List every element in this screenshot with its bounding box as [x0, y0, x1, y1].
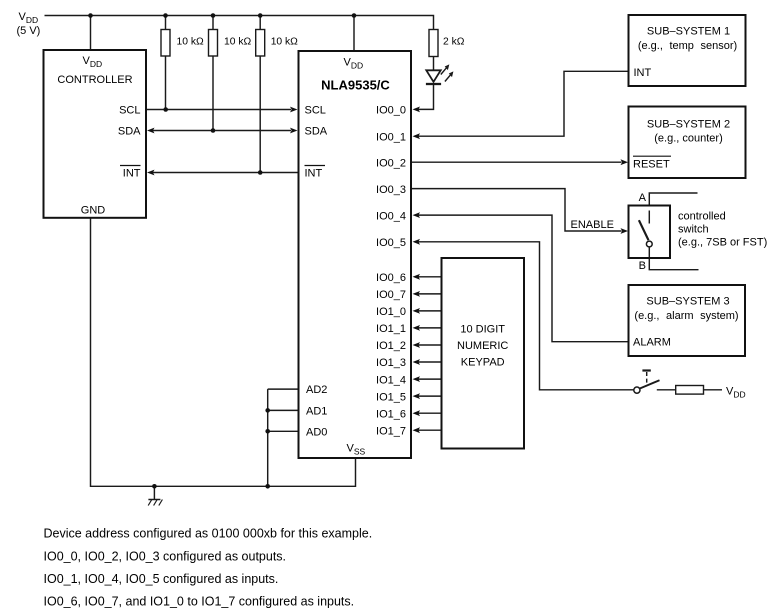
svg-text:IO0_3: IO0_3 — [376, 184, 406, 196]
svg-text:NUMERIC: NUMERIC — [457, 340, 508, 352]
svg-text:10 kΩ: 10 kΩ — [271, 37, 298, 48]
svg-text:SDA: SDA — [118, 126, 141, 138]
svg-text:(e.g., alarm system): (e.g., alarm system) — [634, 310, 738, 322]
svg-text:IO1_5: IO1_5 — [376, 391, 406, 403]
svg-text:B: B — [639, 260, 646, 272]
svg-text:(e.g., temp sensor): (e.g., temp sensor) — [638, 40, 737, 52]
svg-text:IO0_4: IO0_4 — [376, 210, 406, 222]
svg-text:INT: INT — [305, 168, 323, 180]
svg-text:10 kΩ: 10 kΩ — [224, 37, 251, 48]
svg-text:VDD: VDD — [19, 11, 39, 25]
svg-text:GND: GND — [81, 205, 106, 217]
svg-text:AD2: AD2 — [306, 384, 327, 396]
svg-text:SUB–SYSTEM 2: SUB–SYSTEM 2 — [647, 118, 730, 130]
svg-text:CONTROLLER: CONTROLLER — [57, 74, 132, 86]
svg-text:(e.g., 7SB or FST): (e.g., 7SB or FST) — [678, 237, 767, 249]
svg-text:SUB–SYSTEM 3: SUB–SYSTEM 3 — [646, 296, 729, 308]
svg-text:controlled: controlled — [678, 211, 726, 223]
svg-text:KEYPAD: KEYPAD — [461, 357, 505, 369]
svg-text:IO1_0: IO1_0 — [376, 306, 406, 318]
svg-text:IO0_5: IO0_5 — [376, 237, 406, 249]
svg-text:AD1: AD1 — [306, 405, 327, 417]
svg-text:VDD: VDD — [726, 386, 746, 400]
svg-text:SDA: SDA — [305, 126, 328, 138]
svg-text:NLA9535/C: NLA9535/C — [321, 78, 390, 93]
svg-text:SCL: SCL — [305, 105, 326, 117]
svg-text:ENABLE: ENABLE — [571, 219, 614, 231]
svg-text:IO0_1, IO0_4, IO0_5 configured: IO0_1, IO0_4, IO0_5 configured as inputs… — [44, 572, 279, 586]
svg-text:IO1_4: IO1_4 — [376, 374, 406, 386]
svg-text:IO1_7: IO1_7 — [376, 425, 406, 437]
svg-text:SCL: SCL — [119, 105, 140, 117]
svg-text:IO0_2: IO0_2 — [376, 157, 406, 169]
svg-text:VSS: VSS — [347, 443, 366, 457]
svg-text:VDD: VDD — [344, 57, 364, 71]
svg-text:IO0_1: IO0_1 — [376, 131, 406, 143]
svg-text:(5 V): (5 V) — [17, 25, 41, 37]
svg-text:IO0_0, IO0_2, IO0_3 configured: IO0_0, IO0_2, IO0_3 configured as output… — [44, 550, 287, 564]
svg-text:IO0_6, IO0_7, and IO1_0 to IO1: IO0_6, IO0_7, and IO1_0 to IO1_7 configu… — [44, 595, 355, 609]
svg-text:VDD: VDD — [83, 55, 103, 69]
svg-text:RESET: RESET — [633, 159, 670, 171]
svg-text:A: A — [639, 192, 647, 204]
svg-text:switch: switch — [678, 224, 709, 236]
svg-text:IO1_3: IO1_3 — [376, 357, 406, 369]
svg-text:SUB–SYSTEM 1: SUB–SYSTEM 1 — [647, 26, 730, 38]
svg-text:IO0_6: IO0_6 — [376, 272, 406, 284]
svg-text:IO0_0: IO0_0 — [376, 105, 406, 117]
svg-text:IO1_6: IO1_6 — [376, 408, 406, 420]
svg-text:10 DIGIT: 10 DIGIT — [460, 324, 505, 336]
svg-text:IO1_2: IO1_2 — [376, 340, 406, 352]
svg-text:IO0_7: IO0_7 — [376, 289, 406, 301]
svg-text:INT: INT — [123, 168, 141, 180]
svg-text:2 kΩ: 2 kΩ — [443, 36, 465, 47]
svg-text:INT: INT — [634, 67, 652, 79]
svg-text:Device address configured as 0: Device address configured as 0100 000xb … — [44, 527, 373, 541]
svg-text:IO1_1: IO1_1 — [376, 323, 406, 335]
svg-text:AD0: AD0 — [306, 426, 327, 438]
svg-text:(e.g., counter): (e.g., counter) — [654, 133, 722, 145]
svg-text:10 kΩ: 10 kΩ — [177, 37, 204, 48]
svg-text:ALARM: ALARM — [633, 337, 671, 349]
